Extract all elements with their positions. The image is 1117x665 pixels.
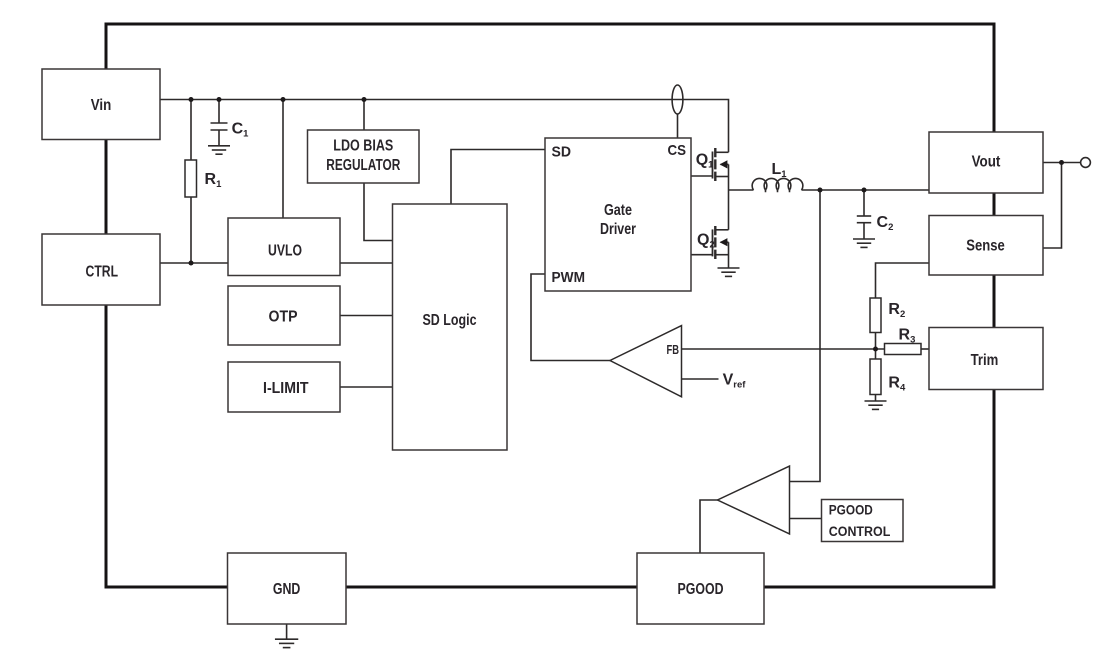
svg-text:CTRL: CTRL (86, 264, 119, 281)
svg-text:FB: FB (667, 342, 680, 357)
svg-text:C1: C1 (232, 121, 250, 140)
svg-text:R3: R3 (899, 327, 916, 346)
svg-text:Driver: Driver (600, 221, 636, 238)
svg-text:Q1: Q1 (696, 152, 714, 171)
svg-text:REGULATOR: REGULATOR (326, 157, 400, 174)
svg-text:CONTROL: CONTROL (829, 524, 891, 539)
svg-text:Vin: Vin (91, 97, 112, 114)
svg-text:Vout: Vout (972, 154, 1001, 171)
svg-text:Trim: Trim (971, 352, 999, 369)
svg-text:Vref: Vref (723, 372, 747, 391)
svg-text:R1: R1 (205, 171, 223, 190)
svg-text:L1: L1 (772, 161, 788, 180)
svg-text:PGOOD: PGOOD (678, 581, 724, 598)
svg-text:R2: R2 (888, 301, 905, 320)
svg-text:UVLO: UVLO (268, 243, 302, 260)
svg-text:SD Logic: SD Logic (423, 312, 477, 329)
svg-text:Gate: Gate (604, 202, 632, 219)
svg-text:OTP: OTP (269, 309, 298, 326)
svg-text:I-LIMIT: I-LIMIT (263, 380, 309, 397)
svg-text:CS: CS (668, 142, 687, 159)
svg-text:Sense: Sense (966, 238, 1005, 255)
svg-text:PGOOD: PGOOD (829, 503, 873, 518)
svg-text:PWM: PWM (552, 269, 586, 286)
svg-text:GND: GND (273, 581, 301, 598)
svg-text:C2: C2 (877, 214, 894, 233)
svg-text:R4: R4 (888, 375, 906, 394)
svg-text:SD: SD (552, 144, 572, 161)
svg-text:LDO BIAS: LDO BIAS (333, 138, 393, 155)
